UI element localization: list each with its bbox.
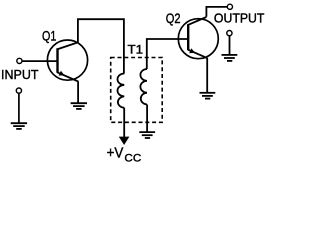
output terminal (ground side) [227, 30, 232, 35]
wire secondary bottom to ground [146, 105, 148, 133]
ground (input) [11, 123, 27, 129]
Q2 base bar [187, 24, 189, 50]
transformer T1 dashed box [111, 58, 163, 123]
Q2 emitter lead [188, 50, 207, 58]
Q1 emitter arrow (NPN, pointing out) [59, 71, 65, 76]
transistor Q2 [178, 17, 218, 59]
Q2 emitter arrow (NPN, pointing out) [189, 48, 195, 53]
ground (output) [222, 55, 238, 61]
svg-text:Q1: Q1 [42, 27, 56, 43]
ground (T1 secondary) [139, 132, 155, 138]
svg-text:Q2: Q2 [166, 10, 181, 26]
transistor Q1 [47, 40, 87, 82]
T1 secondary winding [140, 69, 147, 105]
wire Q2 emitter to ground [206, 58, 208, 93]
svg-text:INPUT: INPUT [1, 67, 39, 82]
output terminal (signal) [227, 4, 232, 9]
svg-text:T1: T1 [128, 44, 144, 57]
+Vcc arrowhead [119, 137, 130, 145]
wire secondary top to Q2 base [147, 39, 188, 69]
Q1 collector lead [57, 42, 78, 49]
Q1 body circle [47, 40, 87, 80]
Q1 emitter lead [57, 72, 78, 81]
wire Q2 collector to output terminal [206, 7, 227, 17]
wire input ground terminal down [18, 94, 20, 124]
svg-text:CC: CC [124, 153, 141, 165]
ground (Q2 emitter) [200, 93, 216, 99]
input terminal (ground side) [16, 88, 21, 93]
input terminal (signal) [17, 58, 22, 63]
wire primary bottom to +Vcc arrow [123, 108, 125, 138]
svg-text:+V: +V [107, 144, 124, 161]
Q2 body circle [178, 19, 218, 59]
wire Q1 collector up/over to T1 primary [78, 19, 124, 73]
ground (Q1 emitter) [71, 103, 87, 109]
svg-text:OUTPUT: OUTPUT [214, 11, 265, 26]
wire output ground terminal down [229, 36, 231, 55]
Q2 collector lead [188, 17, 207, 25]
T1 primary winding [118, 74, 125, 108]
wire input to Q1 base [22, 60, 58, 62]
wire Q1 emitter to ground [77, 81, 79, 103]
Q1 base bar [56, 48, 58, 72]
